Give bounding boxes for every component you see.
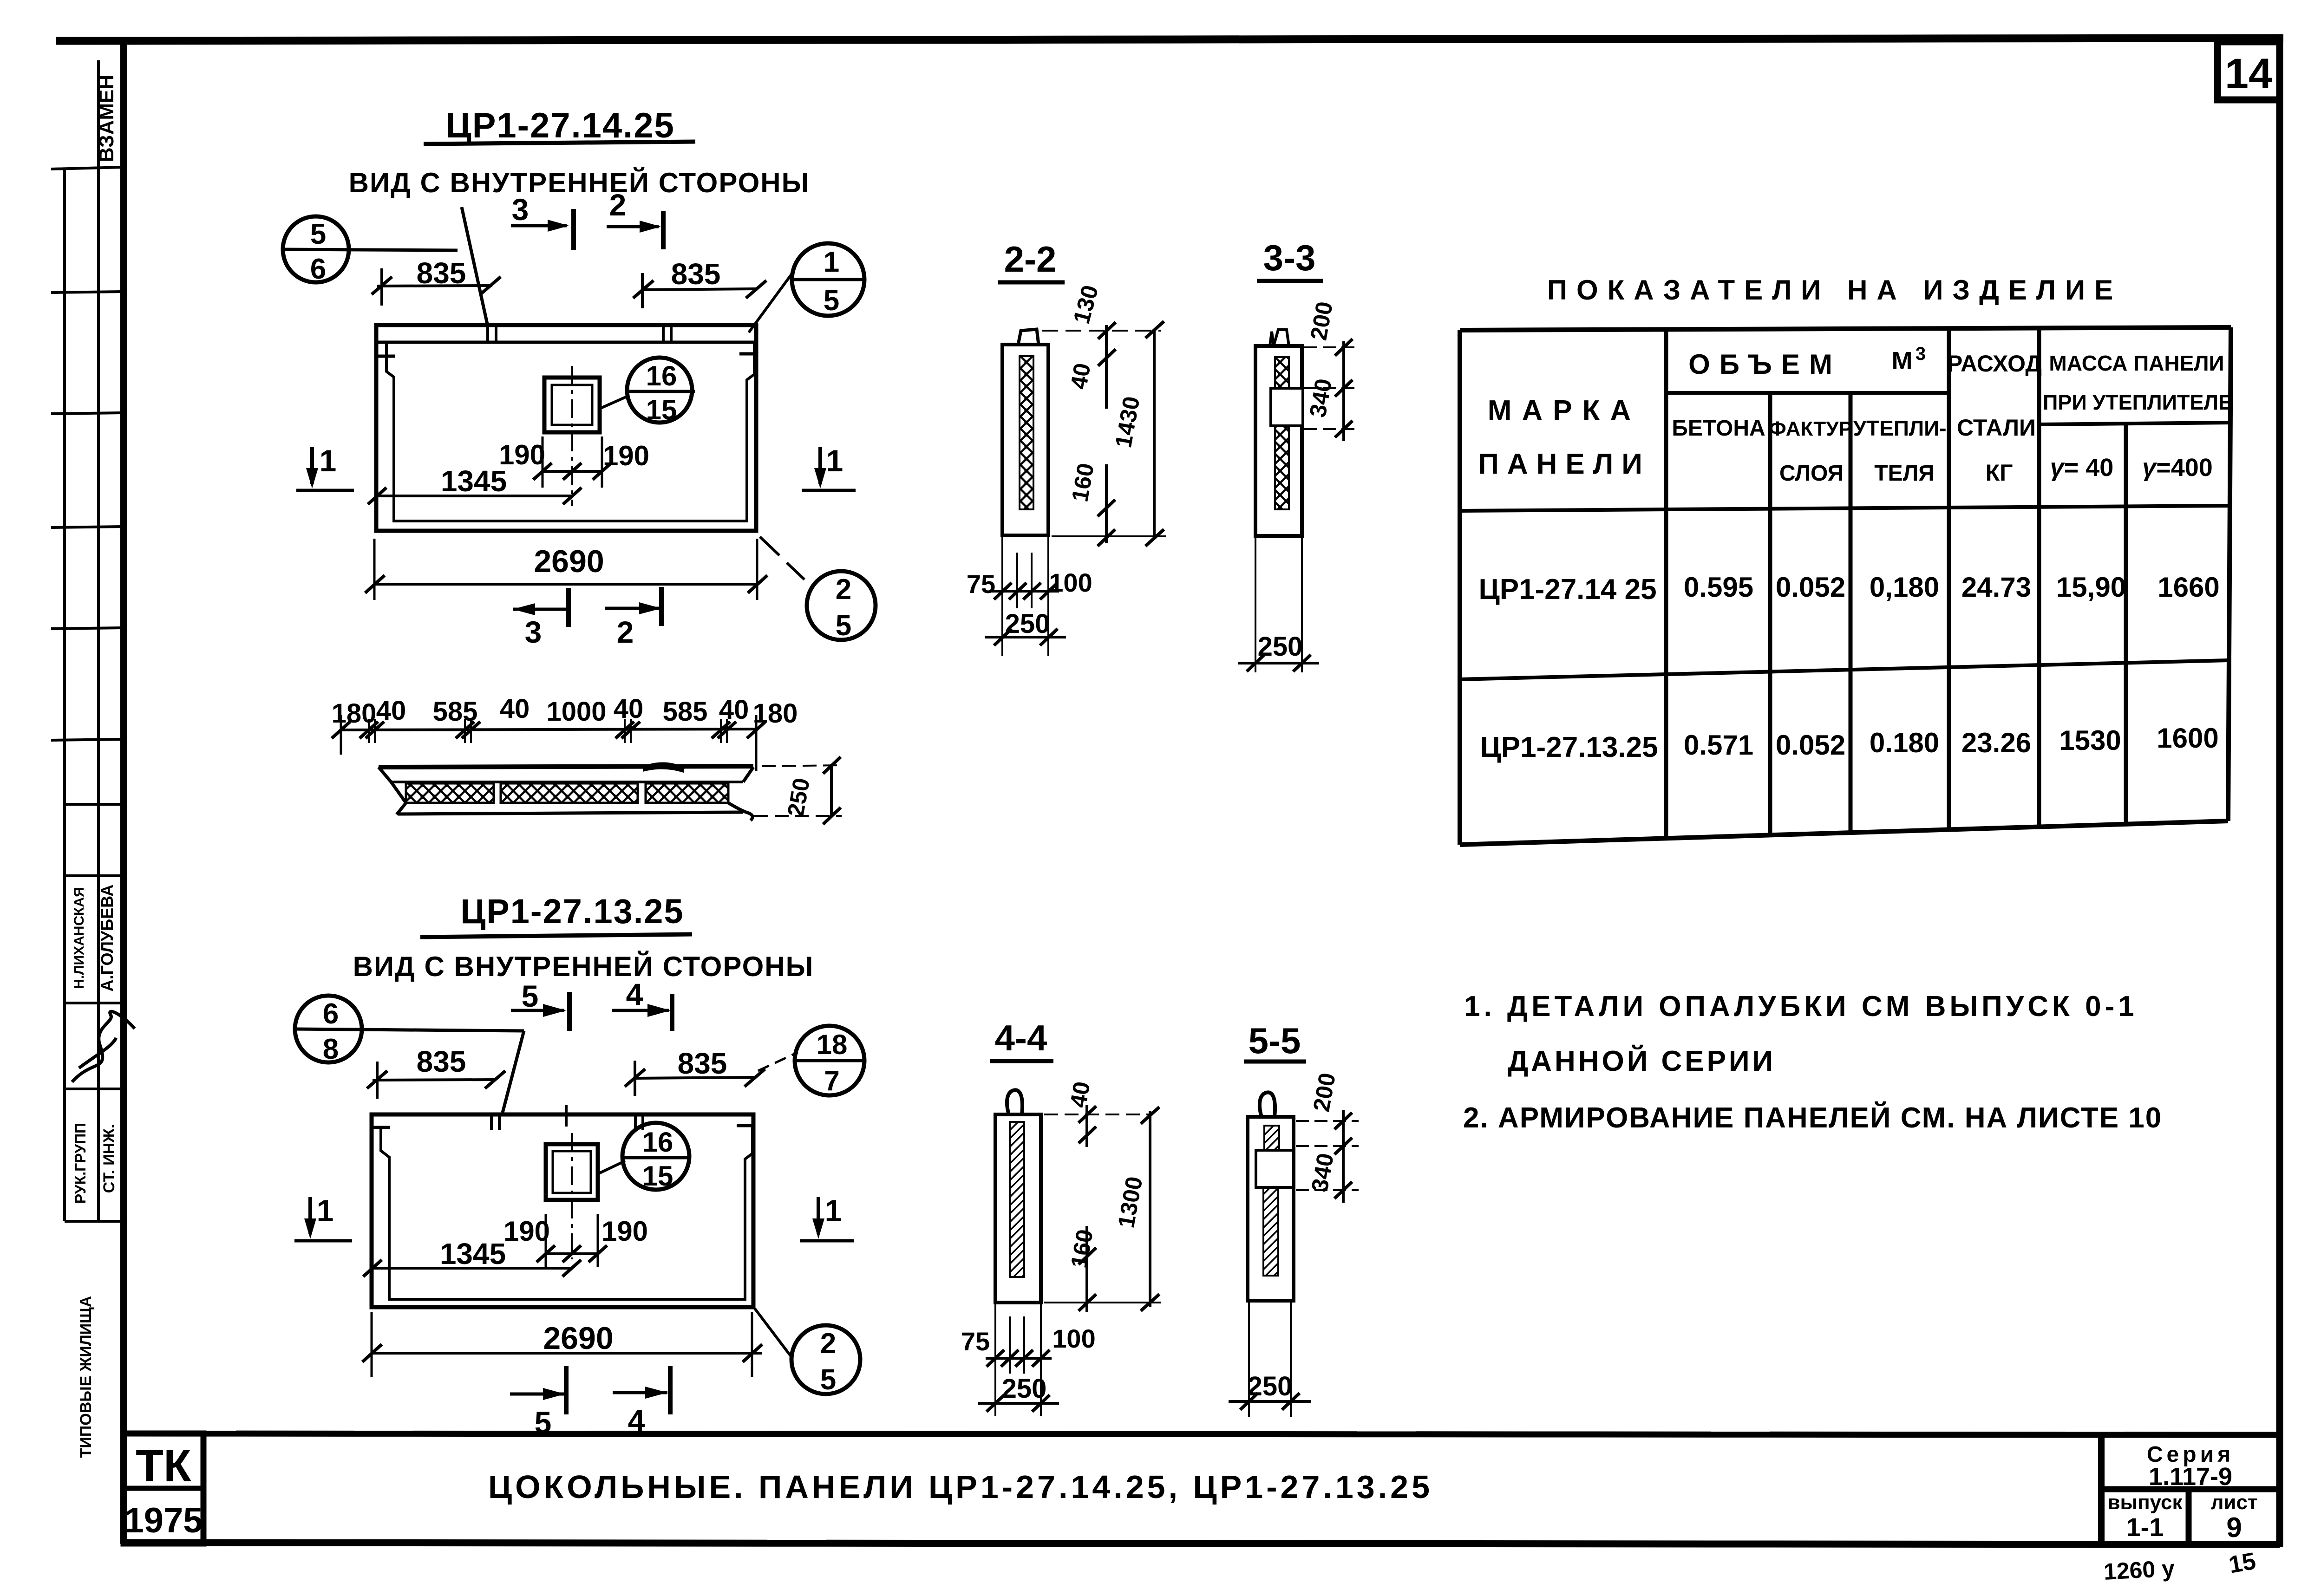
svg-text:ПОКАЗАТЕЛИ НА ИЗДЕЛИЕ: ПОКАЗАТЕЛИ НА ИЗДЕЛИЕ xyxy=(1547,274,2122,306)
inner contour xyxy=(386,342,754,521)
table header texts xyxy=(1478,344,2232,486)
svg-text:2. АРМИРОВАНИЕ ПАНЕЛЕЙ СМ.: 2. АРМИРОВАНИЕ ПАНЕЛЕЙ СМ. НА ЛИСТЕ 10 xyxy=(1463,1101,2162,1134)
svg-text:3: 3 xyxy=(512,192,529,227)
body xyxy=(1255,346,1302,536)
hatch lower xyxy=(1275,426,1289,509)
tenon xyxy=(1018,329,1039,345)
signature xyxy=(72,1011,135,1082)
svg-text:ДАННОЙ СЕРИИ: ДАННОЙ СЕРИИ xyxy=(1508,1045,1776,1077)
svg-text:А.ГОЛУБЕВА: А.ГОЛУБЕВА xyxy=(98,885,117,992)
svg-text:РУК.ГРУПП: РУК.ГРУПП xyxy=(72,1123,89,1204)
slanted extension to slot xyxy=(462,207,488,326)
insulation strip xyxy=(1010,1122,1024,1277)
svg-text:40: 40 xyxy=(1065,1080,1095,1110)
leader to circle 1/5 xyxy=(749,273,792,332)
rail slot left xyxy=(486,325,489,342)
svg-text:1530: 1530 xyxy=(2059,725,2121,756)
node circle 2/5 xyxy=(791,1325,860,1394)
table grid xyxy=(1460,327,2231,845)
top rail line xyxy=(376,341,756,344)
svg-text:6: 6 xyxy=(323,998,339,1030)
dim line small xyxy=(1105,325,1108,409)
panel outline xyxy=(372,1114,753,1307)
centerline xyxy=(571,1133,573,1259)
svg-text:ВЗАМЕН: ВЗАМЕН xyxy=(95,75,118,162)
svg-text:250: 250 xyxy=(1005,609,1050,639)
svg-text:75: 75 xyxy=(967,569,995,599)
section mark 5 bottom xyxy=(510,1393,565,1396)
svg-text:2: 2 xyxy=(820,1328,836,1360)
svg-text:1: 1 xyxy=(824,246,839,278)
opening square xyxy=(546,1144,598,1200)
leader to circle 2/5 xyxy=(755,1309,792,1358)
svg-text:6: 6 xyxy=(310,253,326,285)
svg-text:ТК: ТК xyxy=(136,1440,191,1491)
svg-text:СЛОЯ: СЛОЯ xyxy=(1779,461,1844,486)
svg-text:75: 75 xyxy=(961,1327,990,1356)
svg-text:16: 16 xyxy=(646,360,677,391)
tenon hook xyxy=(1007,1090,1022,1114)
node circle 6/8 xyxy=(295,996,362,1062)
insulation hatch xyxy=(1020,356,1033,509)
hatch upper xyxy=(1275,357,1289,388)
svg-text:5: 5 xyxy=(535,1405,552,1440)
svg-text:2: 2 xyxy=(609,188,627,222)
svg-text:СТАЛИ: СТАЛИ xyxy=(1957,415,2036,441)
svg-text:2-2: 2-2 xyxy=(1004,239,1057,280)
svg-text:1. ДЕТАЛИ ОПАЛУБКИ СМ: 1. ДЕТАЛИ ОПАЛУБКИ СМ ВЫПУСК 0-1 xyxy=(1464,990,2138,1023)
svg-text:ОБЪЕМ: ОБЪЕМ xyxy=(1688,349,1842,380)
svg-text:ЦР1-27.13.25: ЦР1-27.13.25 xyxy=(1480,731,1658,763)
node circle 2/5 xyxy=(807,571,876,640)
leader dashed to circle 18/7 xyxy=(758,1052,798,1071)
svg-text:ВИД С ВНУТРЕННЕЙ СТОРОНЫ: ВИД С ВНУТРЕННЕЙ СТОРОНЫ xyxy=(349,167,810,198)
sidebar rotated texts xyxy=(72,75,135,1458)
leader to 16/15 xyxy=(598,1161,625,1174)
hatch upper xyxy=(1264,1126,1279,1150)
svg-text:190: 190 xyxy=(503,1216,550,1247)
hatch lower xyxy=(1263,1187,1278,1276)
svg-text:УТЕПЛИ-: УТЕПЛИ- xyxy=(1853,416,1946,440)
strip second line xyxy=(391,781,743,783)
svg-text:40: 40 xyxy=(376,696,406,726)
svg-text:КГ: КГ xyxy=(1986,460,2013,486)
svg-text:5: 5 xyxy=(824,285,839,317)
slanted extension xyxy=(503,1031,524,1113)
svg-text:0.180: 0.180 xyxy=(1870,727,1939,758)
svg-text:5: 5 xyxy=(820,1364,836,1396)
body xyxy=(1002,345,1048,535)
svg-text:4-4: 4-4 xyxy=(995,1017,1047,1058)
svg-text:1260 у: 1260 у xyxy=(2103,1555,2176,1585)
svg-text:ТЕЛЯ: ТЕЛЯ xyxy=(1874,461,1935,486)
body xyxy=(995,1114,1041,1303)
svg-text:γ= 40: γ= 40 xyxy=(2050,454,2114,482)
svg-text:250: 250 xyxy=(1002,1374,1047,1404)
right hook xyxy=(743,767,753,782)
table data rows xyxy=(1478,572,2219,763)
node circle 16/15 xyxy=(622,1123,689,1190)
svg-text:5: 5 xyxy=(836,610,851,642)
section mark 4 bottom xyxy=(613,1391,667,1394)
svg-text:ВИД С ВНУТРЕННЕЙ СТОРОНЫ: ВИД С ВНУТРЕННЕЙ СТОРОНЫ xyxy=(353,951,814,982)
svg-text:1345: 1345 xyxy=(440,1237,506,1270)
opening square xyxy=(544,378,600,432)
svg-text:ЦР1-27.14 25: ЦР1-27.14 25 xyxy=(1478,573,1656,606)
key block xyxy=(1256,1150,1294,1187)
left taper xyxy=(379,767,406,803)
svg-text:1: 1 xyxy=(826,443,843,478)
svg-text:190: 190 xyxy=(603,440,649,471)
svg-text:2: 2 xyxy=(836,573,851,606)
svg-text:15: 15 xyxy=(642,1160,673,1192)
rail slot right xyxy=(662,325,665,342)
pencil marks below frame xyxy=(2103,1548,2258,1585)
tenon xyxy=(1270,330,1289,346)
TK box xyxy=(124,1433,203,1544)
svg-text:1: 1 xyxy=(317,1193,334,1228)
svg-text:ТИПОВЫЕ ЖИЛИЩА: ТИПОВЫЕ ЖИЛИЩА xyxy=(77,1296,95,1458)
svg-text:1.117-9: 1.117-9 xyxy=(2149,1463,2232,1491)
svg-text:585: 585 xyxy=(663,697,708,727)
svg-text:2690: 2690 xyxy=(534,544,604,579)
svg-text:18: 18 xyxy=(817,1029,848,1060)
svg-text:1000: 1000 xyxy=(546,697,606,727)
section mark 2 bottom xyxy=(605,607,661,610)
centerline of opening xyxy=(571,366,573,506)
svg-text:8: 8 xyxy=(323,1033,339,1065)
hatched core segments xyxy=(406,783,494,803)
svg-text:1345: 1345 xyxy=(441,464,507,498)
strip body top line xyxy=(379,766,753,767)
svg-text:1: 1 xyxy=(320,443,337,478)
svg-text:2: 2 xyxy=(617,615,634,649)
svg-text:БЕТОНА: БЕТОНА xyxy=(1672,416,1765,441)
svg-text:1-1: 1-1 xyxy=(2126,1512,2164,1542)
svg-text:ЦОКОЛЬНЫЕ. ПАНЕЛИ ЦР1-27.14.2: ЦОКОЛЬНЫЕ. ПАНЕЛИ ЦР1-27.14.25, ЦР1-27.1… xyxy=(488,1469,1433,1505)
svg-text:ФАКТУР: ФАКТУР xyxy=(1769,417,1852,440)
svg-text:180: 180 xyxy=(753,698,798,729)
svg-text:1600: 1600 xyxy=(2157,723,2218,754)
svg-text:15: 15 xyxy=(646,394,677,425)
node circle 16/15 xyxy=(627,358,692,423)
svg-text:3: 3 xyxy=(525,615,542,649)
svg-text:2690: 2690 xyxy=(543,1321,613,1356)
svg-text:40: 40 xyxy=(1066,361,1096,391)
svg-text:Н.ЛИХАНСКАЯ: Н.ЛИХАНСКАЯ xyxy=(72,887,87,989)
svg-text:0.595: 0.595 xyxy=(1684,572,1753,603)
sheet number box 14 xyxy=(2217,42,2280,100)
node circle 1/5 xyxy=(792,243,864,316)
svg-text:ПАНЕЛИ: ПАНЕЛИ xyxy=(1478,448,1651,480)
svg-text:лист: лист xyxy=(2210,1491,2257,1514)
svg-text:9: 9 xyxy=(2226,1512,2242,1543)
svg-text:3-3: 3-3 xyxy=(1263,237,1316,278)
svg-text:40: 40 xyxy=(719,695,749,725)
svg-text:7: 7 xyxy=(824,1065,839,1096)
svg-text:γ=400: γ=400 xyxy=(2142,454,2213,482)
panel outline xyxy=(376,325,756,531)
svg-text:23.26: 23.26 xyxy=(1961,727,2031,758)
svg-text:100: 100 xyxy=(1052,1324,1095,1353)
title block xyxy=(124,1433,2280,1544)
svg-text:190: 190 xyxy=(601,1216,648,1247)
svg-text:835: 835 xyxy=(417,1045,466,1078)
svg-text:250: 250 xyxy=(1258,632,1303,662)
svg-text:0.571: 0.571 xyxy=(1684,730,1753,761)
svg-text:СТ. ИНЖ.: СТ. ИНЖ. xyxy=(100,1124,118,1193)
svg-text:1: 1 xyxy=(825,1193,842,1228)
svg-text:4: 4 xyxy=(626,977,643,1011)
leader to circle 2/5 xyxy=(760,537,779,555)
svg-text:40: 40 xyxy=(614,694,644,724)
svg-text:835: 835 xyxy=(678,1047,727,1080)
svg-text:0.052: 0.052 xyxy=(1776,730,1845,761)
leader to circle 16/15 xyxy=(600,396,629,409)
section mark 3 bottom xyxy=(513,608,569,611)
svg-text:1660: 1660 xyxy=(2158,572,2219,603)
svg-text:5: 5 xyxy=(310,218,326,250)
svg-text:15: 15 xyxy=(2227,1548,2258,1579)
dashed extension top xyxy=(1042,330,1161,332)
svg-text:М: М xyxy=(1892,347,1913,375)
svg-text:16: 16 xyxy=(642,1127,673,1158)
left stamp column xyxy=(51,60,124,1221)
svg-text:15,90: 15,90 xyxy=(2056,572,2126,603)
svg-text:МАРКА: МАРКА xyxy=(1488,395,1641,427)
svg-text:0.052: 0.052 xyxy=(1776,572,1845,603)
svg-text:ЦР1-27.14.25: ЦР1-27.14.25 xyxy=(445,106,675,145)
bottom line xyxy=(398,812,743,814)
inner contour xyxy=(381,1127,752,1299)
svg-text:5-5: 5-5 xyxy=(1249,1020,1301,1061)
svg-text:24.73: 24.73 xyxy=(1961,572,2031,603)
svg-text:835: 835 xyxy=(671,257,721,291)
svg-text:ЦР1-27.13.25: ЦР1-27.13.25 xyxy=(460,892,684,931)
body xyxy=(1248,1117,1294,1301)
top slots xyxy=(490,1114,493,1130)
svg-text:ПРИ УТЕПЛИТЕЛЕ: ПРИ УТЕПЛИТЕЛЕ xyxy=(2043,391,2232,414)
svg-text:5: 5 xyxy=(522,979,539,1013)
tenon hook xyxy=(1260,1092,1275,1117)
svg-text:выпуск: выпуск xyxy=(2107,1491,2183,1514)
notes xyxy=(1463,990,2162,1134)
svg-text:100: 100 xyxy=(1049,568,1092,597)
node circle 18/7 xyxy=(795,1026,864,1095)
node circle 5/6 xyxy=(283,216,349,282)
svg-text:РАСХОД: РАСХОД xyxy=(1947,351,2042,377)
svg-text:40: 40 xyxy=(500,694,530,724)
series box xyxy=(2098,1433,2105,1544)
key block xyxy=(1271,388,1303,426)
svg-text:1975: 1975 xyxy=(124,1501,203,1540)
svg-text:0,180: 0,180 xyxy=(1870,572,1939,603)
svg-text:14: 14 xyxy=(2225,50,2272,98)
svg-text:МАССА ПАНЕЛИ: МАССА ПАНЕЛИ xyxy=(2049,351,2224,375)
svg-text:3: 3 xyxy=(1916,344,1926,364)
svg-text:4: 4 xyxy=(628,1403,645,1438)
